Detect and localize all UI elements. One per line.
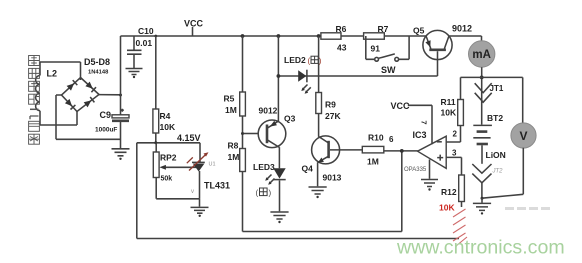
- svg-text:3: 3: [452, 149, 457, 158]
- svg-text:6: 6: [389, 135, 394, 144]
- svg-text:10K: 10K: [441, 108, 457, 118]
- svg-text:VCC: VCC: [391, 101, 411, 111]
- svg-text:(: (: [308, 57, 311, 66]
- svg-text:27K: 27K: [325, 111, 341, 121]
- svg-text:10K: 10K: [160, 122, 176, 132]
- svg-text:BT2: BT2: [487, 113, 503, 123]
- svg-text:JT1: JT1: [490, 84, 504, 93]
- svg-text:): ): [269, 189, 272, 198]
- svg-text:43: 43: [337, 43, 347, 53]
- svg-text:VCC: VCC: [184, 19, 204, 29]
- svg-text:R5: R5: [224, 94, 235, 104]
- svg-text:R12: R12: [441, 187, 457, 197]
- svg-text:D5-D8: D5-D8: [84, 57, 110, 67]
- svg-text:R4: R4: [160, 111, 171, 121]
- svg-text:JT2: JT2: [492, 169, 504, 175]
- svg-text:10K: 10K: [439, 203, 455, 213]
- svg-text:Q5: Q5: [413, 26, 425, 36]
- svg-text:0.01: 0.01: [136, 38, 153, 48]
- svg-text:9012: 9012: [452, 24, 472, 34]
- svg-text:1M: 1M: [228, 152, 240, 162]
- svg-text:9012: 9012: [259, 106, 278, 116]
- svg-text:R8: R8: [228, 141, 239, 151]
- svg-text:91: 91: [371, 44, 381, 54]
- svg-text:LiON: LiON: [486, 150, 506, 160]
- svg-text:V: V: [519, 129, 527, 143]
- svg-text:(: (: [256, 189, 259, 198]
- svg-text:U1: U1: [209, 162, 216, 168]
- svg-text:LED3: LED3: [253, 162, 275, 172]
- svg-text:IC3: IC3: [413, 130, 427, 140]
- svg-text:OPA335: OPA335: [404, 167, 427, 173]
- svg-text:mA: mA: [472, 49, 491, 61]
- svg-text:R11: R11: [441, 97, 456, 107]
- svg-text:TL431: TL431: [204, 181, 230, 191]
- svg-text:RP2: RP2: [160, 153, 177, 163]
- svg-text:SW: SW: [381, 65, 396, 75]
- svg-text:LED2: LED2: [284, 55, 306, 65]
- svg-text:L2: L2: [47, 69, 58, 79]
- svg-text:www.cntronics.com: www.cntronics.com: [396, 237, 565, 259]
- svg-text:7: 7: [420, 120, 429, 124]
- svg-text:C10: C10: [138, 26, 154, 36]
- svg-text:1M: 1M: [367, 157, 379, 167]
- svg-text:Q4: Q4: [302, 164, 314, 174]
- svg-text:Q3: Q3: [284, 114, 296, 124]
- svg-text:v: v: [191, 189, 194, 195]
- svg-text:1M: 1M: [225, 105, 237, 115]
- svg-text:C9: C9: [100, 110, 112, 120]
- svg-text:R6: R6: [336, 24, 347, 34]
- svg-text:50k: 50k: [161, 176, 173, 183]
- svg-text:2: 2: [453, 130, 458, 139]
- svg-text:1000uF: 1000uF: [95, 127, 117, 134]
- svg-text:1N4148: 1N4148: [88, 70, 109, 76]
- svg-text:R7: R7: [378, 24, 389, 34]
- svg-text:4.15V: 4.15V: [177, 133, 201, 143]
- svg-text:R10: R10: [368, 133, 384, 143]
- svg-text:R9: R9: [325, 100, 336, 110]
- svg-text:9013: 9013: [323, 173, 342, 183]
